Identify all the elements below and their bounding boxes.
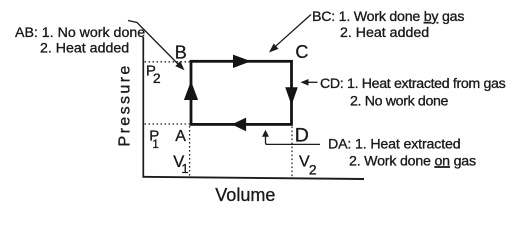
svg-text:2. Work done on gas: 2. Work done on gas <box>349 153 476 169</box>
svg-text:B: B <box>175 43 187 63</box>
svg-text:2: 2 <box>309 161 317 177</box>
svg-text:2. Heat added: 2. Heat added <box>340 25 429 41</box>
svg-text:Pressure: Pressure <box>117 63 134 146</box>
svg-text:1: 1 <box>152 139 158 151</box>
svg-text:DA: 1. Heat extracted: DA: 1. Heat extracted <box>328 136 460 152</box>
svg-text:AB: 1. No work done: AB: 1. No work done <box>15 25 145 41</box>
svg-text:2. No work done: 2. No work done <box>350 93 449 109</box>
svg-text:2: 2 <box>153 70 161 86</box>
svg-text:Volume: Volume <box>215 185 275 205</box>
svg-text:2. Heat added: 2. Heat added <box>40 40 129 56</box>
svg-text:BC: 1. Work done by gas: BC: 1. Work done by gas <box>312 9 464 25</box>
svg-text:1: 1 <box>181 161 188 176</box>
svg-text:A: A <box>175 128 186 145</box>
svg-text:D: D <box>295 125 309 147</box>
svg-text:C: C <box>295 42 308 62</box>
svg-text:CD: 1. Heat extracted from gas: CD: 1. Heat extracted from gas <box>320 76 506 92</box>
